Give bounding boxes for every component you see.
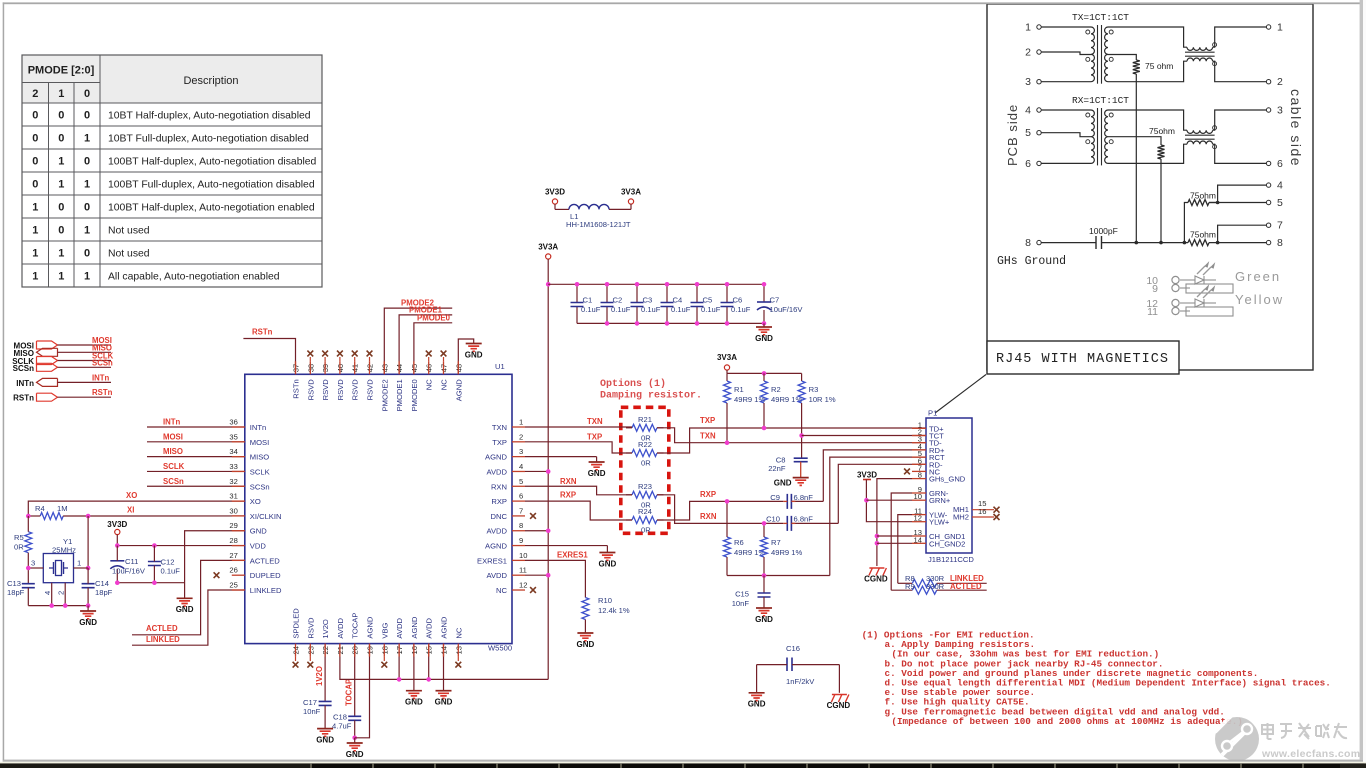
svg-text:ACTLED: ACTLED [950, 582, 982, 591]
svg-text:3V3D: 3V3D [545, 188, 565, 197]
svg-text:NC: NC [496, 586, 507, 595]
svg-text:R2: R2 [771, 385, 781, 394]
svg-text:SCSn: SCSn [250, 482, 270, 491]
svg-text:C1: C1 [583, 296, 593, 305]
svg-text:NC: NC [454, 627, 463, 638]
svg-text:INTn: INTn [16, 379, 34, 388]
svg-text:4: 4 [1277, 180, 1283, 192]
svg-text:0: 0 [32, 178, 38, 190]
svg-text:0.1uF: 0.1uF [161, 567, 181, 576]
svg-text:1: 1 [32, 270, 38, 282]
svg-text:0.1uF: 0.1uF [701, 305, 721, 314]
svg-text:XI/CLKIN: XI/CLKIN [250, 512, 282, 521]
svg-text:18pF: 18pF [95, 588, 113, 597]
svg-text:1V2O: 1V2O [315, 666, 324, 686]
svg-text:AGND: AGND [454, 379, 463, 401]
svg-text:GND: GND [79, 618, 97, 627]
svg-text:W5500: W5500 [488, 644, 512, 653]
svg-text:GND: GND [755, 615, 773, 624]
svg-text:AVDD: AVDD [425, 618, 434, 639]
svg-text:R7: R7 [771, 538, 781, 547]
svg-text:GND: GND [176, 605, 194, 614]
svg-text:GND: GND [346, 750, 364, 759]
svg-text:GHs_GND: GHs_GND [929, 475, 966, 484]
svg-text:1: 1 [84, 178, 90, 190]
svg-text:C2: C2 [613, 296, 623, 305]
svg-text:AVDD: AVDD [486, 467, 507, 476]
svg-text:GND: GND [748, 700, 766, 709]
svg-text:J1B1211CCD: J1B1211CCD [928, 555, 974, 564]
svg-text:RSVD: RSVD [351, 379, 360, 401]
svg-text:9: 9 [519, 536, 523, 545]
svg-text:0: 0 [32, 109, 38, 121]
svg-text:18pF: 18pF [7, 588, 25, 597]
svg-text:GND: GND [465, 350, 483, 359]
svg-text:R23: R23 [638, 482, 652, 491]
svg-text:AVDD: AVDD [486, 571, 507, 580]
svg-text:Green: Green [1235, 269, 1281, 284]
svg-text:1000pF: 1000pF [1089, 226, 1118, 236]
svg-text:11: 11 [1147, 306, 1158, 318]
svg-text:12.4k 1%: 12.4k 1% [598, 606, 630, 615]
svg-text:AGND: AGND [440, 616, 449, 638]
svg-text:4: 4 [519, 462, 523, 471]
svg-text:30: 30 [229, 506, 237, 515]
svg-text:5: 5 [519, 477, 523, 486]
svg-text:RSVD: RSVD [366, 379, 375, 401]
svg-text:R10: R10 [598, 596, 612, 605]
svg-text:RXN: RXN [491, 482, 507, 491]
svg-text:ACTLED: ACTLED [146, 624, 178, 633]
svg-text:MH2: MH2 [953, 513, 969, 522]
svg-text:R21: R21 [638, 415, 652, 424]
svg-text:6: 6 [1277, 158, 1283, 170]
svg-text:1: 1 [58, 270, 64, 282]
svg-text:22nF: 22nF [768, 464, 786, 473]
svg-text:RXP: RXP [491, 497, 507, 506]
svg-text:GHs Ground: GHs Ground [997, 255, 1066, 268]
svg-text:3: 3 [519, 447, 523, 456]
svg-text:GND: GND [250, 527, 267, 536]
svg-text:www.elecfans.com: www.elecfans.com [1261, 748, 1360, 760]
svg-text:26: 26 [229, 566, 237, 575]
svg-text:0.1uF: 0.1uF [671, 305, 691, 314]
svg-text:C14: C14 [95, 579, 109, 588]
svg-text:29: 29 [229, 521, 237, 530]
svg-text:0: 0 [58, 201, 64, 213]
svg-text:35: 35 [229, 432, 237, 441]
svg-text:75ohm: 75ohm [1190, 191, 1216, 201]
svg-text:GND: GND [755, 334, 773, 343]
svg-text:1V2O: 1V2O [321, 619, 330, 639]
svg-text:TXP: TXP [700, 416, 715, 425]
svg-text:31: 31 [229, 492, 237, 501]
svg-text:MOSI: MOSI [250, 438, 269, 447]
svg-text:8: 8 [519, 521, 523, 530]
svg-text:10BT Full-duplex, Auto-negotia: 10BT Full-duplex, Auto-negotiation disab… [108, 133, 309, 144]
svg-text:GND: GND [588, 469, 606, 478]
svg-text:RXP: RXP [700, 490, 716, 499]
svg-text:2: 2 [1277, 76, 1283, 88]
svg-text:0R: 0R [641, 526, 651, 535]
svg-text:RSTn: RSTn [92, 388, 113, 397]
svg-text:LINKLED: LINKLED [146, 635, 180, 644]
svg-text:C5: C5 [703, 296, 713, 305]
svg-text:0: 0 [84, 155, 90, 167]
svg-text:DNC: DNC [491, 512, 508, 521]
svg-text:0: 0 [84, 201, 90, 213]
svg-text:R24: R24 [638, 507, 652, 516]
svg-text:3: 3 [1025, 76, 1031, 88]
svg-text:TXP: TXP [492, 438, 507, 447]
svg-text:0: 0 [84, 247, 90, 259]
svg-text:AVDD: AVDD [486, 527, 507, 536]
svg-text:VBG: VBG [380, 622, 389, 638]
svg-text:12: 12 [519, 581, 527, 590]
svg-text:34: 34 [229, 447, 237, 456]
svg-text:C16: C16 [786, 644, 800, 653]
svg-text:4: 4 [43, 591, 52, 595]
svg-text:0: 0 [32, 132, 38, 144]
svg-text:0.1uF: 0.1uF [641, 305, 661, 314]
svg-text:3V3A: 3V3A [621, 188, 641, 197]
svg-text:R6: R6 [734, 538, 744, 547]
svg-text:R9: R9 [905, 582, 915, 591]
svg-text:MOSI: MOSI [163, 432, 183, 441]
svg-text:C9: C9 [770, 493, 780, 502]
svg-text:R3: R3 [809, 385, 819, 394]
svg-text:1: 1 [84, 270, 90, 282]
svg-text:C4: C4 [673, 296, 683, 305]
svg-text:Description: Description [183, 75, 238, 87]
svg-text:NC: NC [425, 379, 434, 390]
svg-text:C18: C18 [333, 713, 347, 722]
svg-text:RSVD: RSVD [306, 617, 315, 639]
svg-text:0R: 0R [641, 459, 651, 468]
svg-text:RSTn: RSTn [292, 379, 301, 398]
svg-text:XO: XO [126, 491, 137, 500]
svg-text:SCLK: SCLK [250, 467, 270, 476]
svg-text:U1: U1 [495, 362, 505, 371]
svg-text:10uF/16V: 10uF/16V [112, 567, 146, 576]
svg-text:TOCAP: TOCAP [345, 679, 354, 706]
svg-text:1M: 1M [57, 504, 68, 513]
svg-text:75ohm: 75ohm [1149, 126, 1175, 136]
svg-text:3: 3 [31, 559, 35, 568]
svg-text:25MHz: 25MHz [52, 546, 76, 555]
svg-text:CGND: CGND [864, 575, 888, 584]
svg-text:XI: XI [127, 506, 134, 515]
svg-text:0: 0 [32, 155, 38, 167]
svg-text:10uF/16V: 10uF/16V [770, 305, 804, 314]
svg-text:TOCAP: TOCAP [351, 613, 360, 639]
svg-text:6.8nF: 6.8nF [794, 515, 814, 524]
svg-text:100BT Half-duplex, Auto-negoti: 100BT Half-duplex, Auto-negotiation enab… [108, 202, 315, 213]
svg-text:(Impedance of between 100 and: (Impedance of between 100 and 2000 ohms … [891, 716, 1242, 727]
svg-text:C11: C11 [125, 557, 138, 566]
svg-text:1: 1 [1277, 22, 1283, 34]
svg-text:10R 1%: 10R 1% [809, 395, 836, 404]
svg-text:AVDD: AVDD [336, 618, 345, 639]
svg-text:R1: R1 [734, 385, 744, 394]
svg-text:NC: NC [440, 379, 449, 390]
svg-text:7: 7 [1277, 220, 1283, 232]
svg-text:49R9 1%: 49R9 1% [771, 548, 802, 557]
svg-text:R5: R5 [14, 533, 24, 542]
svg-text:75ohm: 75ohm [1190, 230, 1216, 240]
svg-text:ACTLED: ACTLED [250, 556, 280, 565]
svg-text:TX=1CT:1CT: TX=1CT:1CT [1072, 12, 1129, 23]
svg-text:4: 4 [1025, 105, 1031, 117]
svg-text:C10: C10 [766, 515, 780, 524]
svg-text:0R: 0R [14, 543, 24, 552]
svg-text:RSVD: RSVD [336, 379, 345, 401]
svg-text:1: 1 [77, 559, 81, 568]
svg-text:1: 1 [84, 132, 90, 144]
svg-text:0: 0 [58, 109, 64, 121]
svg-text:3V3D: 3V3D [107, 520, 127, 529]
svg-text:10nF: 10nF [732, 599, 750, 608]
svg-text:RSTn: RSTn [13, 394, 34, 403]
svg-text:GND: GND [599, 559, 617, 568]
svg-text:33: 33 [229, 462, 237, 471]
svg-text:R4: R4 [35, 504, 45, 513]
svg-text:RSVD: RSVD [306, 379, 315, 401]
svg-text:5: 5 [1025, 127, 1031, 139]
svg-text:SCLK: SCLK [163, 462, 185, 471]
svg-text:6: 6 [519, 492, 523, 501]
svg-text:INTn: INTn [250, 423, 266, 432]
svg-text:PCB side: PCB side [1005, 104, 1020, 166]
svg-text:8: 8 [1025, 237, 1031, 249]
svg-text:EXRES1: EXRES1 [477, 556, 507, 565]
svg-text:PMODE0: PMODE0 [410, 379, 419, 411]
svg-text:0.1uF: 0.1uF [611, 305, 631, 314]
svg-text:PMODE2: PMODE2 [380, 379, 389, 411]
svg-text:6.8nF: 6.8nF [794, 493, 814, 502]
svg-text:2: 2 [57, 591, 66, 595]
svg-text:cable side: cable side [1288, 89, 1304, 167]
svg-text:AGND: AGND [366, 616, 375, 638]
svg-text:HH-1M1608-121JT: HH-1M1608-121JT [566, 220, 631, 229]
svg-text:All capable, Auto-negotiation: All capable, Auto-negotiation enabled [108, 271, 280, 282]
svg-text:25: 25 [229, 581, 237, 590]
svg-text:3: 3 [1277, 105, 1283, 117]
svg-text:1nF/2kV: 1nF/2kV [786, 677, 815, 686]
svg-text:2: 2 [1025, 47, 1031, 59]
svg-text:3V3A: 3V3A [538, 243, 558, 252]
svg-text:5: 5 [1277, 197, 1283, 209]
svg-text:0.1uF: 0.1uF [581, 305, 601, 314]
svg-text:INTn: INTn [163, 418, 181, 427]
svg-text:GND: GND [577, 640, 595, 649]
svg-text:TXN: TXN [700, 432, 716, 441]
svg-text:SCSn: SCSn [163, 477, 184, 486]
svg-text:Not used: Not used [108, 248, 150, 259]
svg-text:C13: C13 [7, 579, 21, 588]
svg-text:0: 0 [84, 109, 90, 121]
svg-text:1: 1 [519, 418, 523, 427]
svg-text:DUPLED: DUPLED [250, 571, 281, 580]
svg-text:0: 0 [84, 88, 90, 100]
svg-text:32: 32 [229, 477, 237, 486]
svg-text:100BT Half-duplex, Auto-negoti: 100BT Half-duplex, Auto-negotiation disa… [108, 156, 317, 167]
svg-text:TXN: TXN [492, 423, 507, 432]
svg-text:2: 2 [32, 88, 38, 100]
svg-text:RXP: RXP [560, 491, 576, 500]
svg-text:TXN: TXN [587, 417, 603, 426]
svg-text:75 ohm: 75 ohm [1145, 61, 1173, 71]
svg-text:C17: C17 [303, 698, 317, 707]
svg-text:XO: XO [250, 497, 261, 506]
svg-text:AGND: AGND [485, 542, 507, 551]
svg-text:PMODE1: PMODE1 [395, 379, 404, 411]
svg-text:RSVD: RSVD [321, 379, 330, 401]
svg-text:1: 1 [58, 178, 64, 190]
svg-text:0: 0 [58, 132, 64, 144]
svg-text:P1: P1 [928, 409, 937, 418]
svg-text:C3: C3 [643, 296, 653, 305]
svg-text:100BT Full-duplex, Auto-negoti: 100BT Full-duplex, Auto-negotiation disa… [108, 179, 315, 190]
svg-text:PMODE0: PMODE0 [417, 313, 451, 322]
svg-text:AGND: AGND [410, 616, 419, 638]
svg-text:10nF: 10nF [303, 707, 321, 716]
svg-text:AGND: AGND [485, 453, 507, 462]
svg-text:Yellow: Yellow [1235, 292, 1284, 307]
svg-text:SCSn: SCSn [92, 358, 113, 367]
svg-text:GND: GND [774, 479, 792, 488]
svg-text:1: 1 [32, 201, 38, 213]
svg-text:GND: GND [316, 735, 334, 744]
svg-text:7: 7 [519, 506, 523, 515]
svg-text:1: 1 [84, 224, 90, 236]
svg-text:1: 1 [58, 247, 64, 259]
svg-text:3V3D: 3V3D [857, 471, 877, 480]
svg-text:0.1uF: 0.1uF [731, 305, 751, 314]
svg-text:RSTn: RSTn [252, 328, 273, 337]
svg-text:MISO: MISO [250, 453, 270, 462]
svg-text:1: 1 [32, 247, 38, 259]
svg-text:1: 1 [58, 155, 64, 167]
svg-text:GND: GND [405, 698, 423, 707]
svg-text:Damping resistor.: Damping resistor. [600, 390, 702, 402]
svg-text:RXN: RXN [700, 512, 717, 521]
svg-text:AVDD: AVDD [395, 618, 404, 639]
svg-text:Options (1): Options (1) [600, 378, 666, 390]
svg-text:C7: C7 [770, 296, 780, 305]
svg-text:EXRES1: EXRES1 [557, 551, 588, 560]
svg-text:9: 9 [1152, 283, 1158, 295]
svg-text:Not used: Not used [108, 225, 150, 236]
svg-text:SCSn: SCSn [13, 364, 34, 373]
svg-text:C6: C6 [733, 296, 743, 305]
svg-text:8: 8 [1277, 237, 1283, 249]
svg-text:16: 16 [978, 507, 986, 516]
svg-text:GND: GND [435, 698, 453, 707]
svg-text:1: 1 [1025, 22, 1031, 34]
svg-text:1: 1 [32, 224, 38, 236]
svg-text:LINKLED: LINKLED [250, 586, 282, 595]
svg-text:C12: C12 [161, 558, 175, 567]
svg-text:0: 0 [58, 224, 64, 236]
svg-text:27: 27 [229, 551, 237, 560]
svg-text:6: 6 [1025, 158, 1031, 170]
svg-text:RXN: RXN [560, 477, 577, 486]
svg-text:MISO: MISO [163, 447, 183, 456]
svg-text:11: 11 [519, 566, 527, 575]
svg-text:R22: R22 [638, 440, 652, 449]
svg-text:2: 2 [519, 432, 523, 441]
svg-text:4.7uF: 4.7uF [332, 722, 352, 731]
svg-text:C15: C15 [735, 590, 749, 599]
svg-text:VDD: VDD [250, 542, 267, 551]
svg-text:YLW+: YLW+ [929, 518, 950, 527]
svg-text:1: 1 [58, 88, 64, 100]
svg-text:INTn: INTn [92, 373, 110, 382]
svg-text:10BT Half-duplex, Auto-negotia: 10BT Half-duplex, Auto-negotiation disab… [108, 110, 311, 121]
svg-text:RX=1CT:1CT: RX=1CT:1CT [1072, 95, 1129, 106]
svg-text:CGND: CGND [827, 701, 851, 710]
svg-text:TXP: TXP [587, 433, 602, 442]
svg-text:28: 28 [229, 536, 237, 545]
svg-text:36: 36 [229, 418, 237, 427]
svg-text:SPDLED: SPDLED [292, 608, 301, 639]
svg-text:3V3A: 3V3A [717, 353, 737, 362]
svg-text:GRN+: GRN+ [929, 496, 951, 505]
svg-text:CH_GND2: CH_GND2 [929, 539, 965, 548]
svg-text:330R: 330R [926, 582, 945, 591]
svg-text:10: 10 [519, 551, 527, 560]
svg-text:PMODE [2:0]: PMODE [2:0] [28, 65, 95, 77]
svg-text:RJ45 WITH MAGNETICS: RJ45 WITH MAGNETICS [996, 352, 1169, 367]
